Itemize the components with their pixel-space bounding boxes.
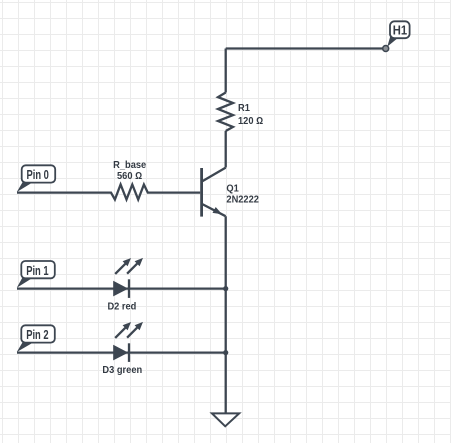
svg-text:2N2222: 2N2222 [226, 194, 259, 205]
svg-text:120 Ω: 120 Ω [238, 116, 263, 127]
net flag Pin 0 [17, 165, 55, 192]
svg-text:D3 green: D3 green [102, 365, 142, 376]
svg-text:560 Ω: 560 Ω [117, 171, 142, 182]
LED D2 [113, 258, 143, 298]
label R1 value 120 ohm [238, 103, 263, 127]
transistor Q1 2N2222 [202, 168, 226, 217]
wire top horizontal from collector column to H1 node [226, 47, 383, 49]
svg-text:Pin 0: Pin 0 [27, 169, 49, 183]
svg-text:Pin 2: Pin 2 [26, 329, 48, 343]
svg-text:Pin 1: Pin 1 [26, 265, 48, 279]
net flag Pin 2 [17, 325, 55, 352]
wire base row with resistor R_base [17, 185, 200, 200]
wire emitter down to ground [225, 216, 227, 413]
net flag Pin 1 [17, 261, 55, 288]
junction dot Pin1 / emitter column [223, 286, 228, 291]
svg-text:R1: R1 [238, 103, 250, 114]
wire top vertical down to R1 [225, 49, 227, 93]
net flag H1 [387, 21, 409, 46]
svg-text:Q1: Q1 [226, 183, 239, 194]
LED D3 [113, 322, 143, 362]
wire Pin 2 row [17, 351, 225, 353]
svg-text:H1: H1 [393, 23, 408, 38]
junction dot Pin2 / emitter column [223, 350, 228, 355]
svg-text:R_base: R_base [113, 160, 147, 171]
svg-text:D2 red: D2 red [107, 301, 136, 312]
ground [212, 413, 239, 426]
label R_base value 560 ohm [113, 160, 147, 182]
node H1 terminal circle [383, 46, 389, 52]
wire Pin 1 row [17, 287, 225, 289]
wire R1 bottom to collector [225, 131, 227, 168]
resistor R1 [218, 93, 233, 132]
label Q1 2N2222 [226, 183, 259, 205]
